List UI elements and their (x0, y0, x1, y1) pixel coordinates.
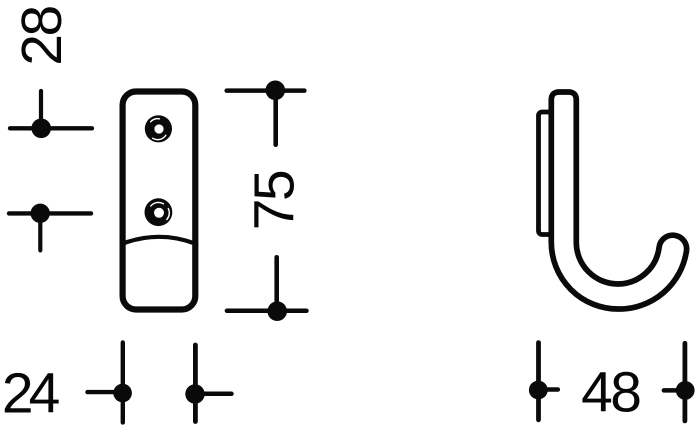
dimension dot bottom (75 dim) (267, 301, 287, 321)
extension line upper hole (28 dim) (10, 126, 92, 130)
dimension stub up (28 dim) (39, 91, 43, 128)
side view: J-hook body (551, 92, 686, 309)
dimension dot right (48 dim) (676, 381, 695, 400)
svg-text:28: 28 (10, 7, 74, 66)
dimension dot left (48 dim) (529, 381, 548, 400)
extension line plate left edge (24 dim) (121, 343, 125, 423)
dimension dot upper (28 dim) (31, 119, 51, 139)
dimension dot left (24 dim) (113, 384, 132, 403)
extension line plate right edge (24 dim) (193, 345, 198, 422)
front view: hook base divider arc (123, 237, 196, 244)
svg-text:24: 24 (2, 361, 60, 425)
dimension dot right (24 dim) (185, 384, 204, 403)
dimension stub down (28 dim) (38, 213, 42, 250)
extension line plate bottom (75 dim) (227, 309, 307, 314)
side view: wall plate edge strip (539, 112, 558, 235)
svg-text:48: 48 (581, 361, 640, 425)
front view: wall plate outline (123, 92, 196, 310)
extension line hook tip (48 dim) (683, 343, 688, 421)
dimension stub left (48 dim) (664, 388, 685, 393)
dimension dot lower (28 dim) (31, 204, 50, 223)
dimension stub up (75 dim) (274, 257, 279, 311)
extension line plate top (75 dim) (227, 88, 305, 93)
dimension dot top (75 dim) (266, 81, 286, 101)
dimension stub right (48 dim) (538, 387, 558, 392)
dimension stub down (75 dim) (273, 90, 278, 144)
svg-text:75: 75 (242, 171, 306, 230)
screw hole upper (145, 115, 172, 142)
extension line lower hole (28 dim) (9, 211, 91, 215)
screw hole lower (145, 198, 173, 226)
dimension stub left (24 dim) (88, 390, 123, 394)
extension line hook back (48 dim) (536, 343, 541, 420)
dimension stub right (24 dim) (195, 392, 231, 397)
